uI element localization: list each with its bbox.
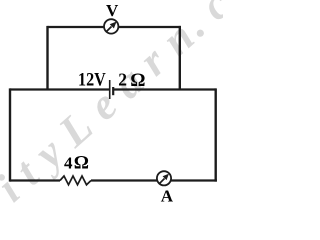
- wire: bottom left segment: [10, 179, 60, 181]
- svg-text:4: 4: [64, 153, 73, 172]
- svg-text:Ω: Ω: [74, 153, 89, 174]
- wire: top voltmeter branch left segment: [48, 26, 105, 28]
- voltmeter needle: [107, 27, 112, 32]
- ammeter U2 circle: [157, 171, 171, 185]
- svg-text:V: V: [106, 1, 119, 20]
- wire: bottom middle segment: [91, 179, 157, 181]
- wire: left vertical of voltmeter branch: [46, 26, 48, 90]
- voltmeter U1 circle: [104, 19, 118, 33]
- svg-text:2: 2: [118, 70, 127, 90]
- wire: middle battery wire left: [10, 88, 109, 90]
- wire: top voltmeter branch right segment: [118, 26, 181, 28]
- battery B1 long plate: [109, 80, 111, 99]
- ammeter needle: [160, 179, 165, 184]
- svg-text:Ω: Ω: [130, 70, 145, 91]
- wire: outer left vertical: [9, 88, 11, 181]
- svg-text:A: A: [161, 187, 174, 206]
- wire: outer right vertical: [214, 88, 216, 181]
- wire: middle battery wire right: [113, 88, 216, 90]
- wire: right vertical of voltmeter branch: [179, 26, 181, 90]
- resistor R1 zigzag: [60, 176, 91, 185]
- wire: bottom right segment: [171, 179, 217, 181]
- svg-text:12V: 12V: [78, 71, 106, 91]
- battery B1 short plate: [112, 87, 114, 95]
